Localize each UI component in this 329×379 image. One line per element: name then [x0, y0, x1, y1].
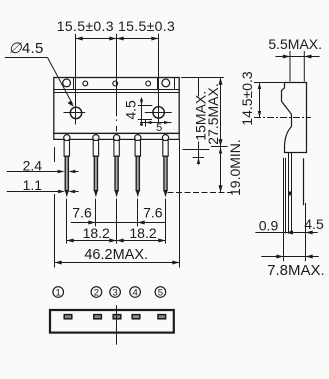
pin 2 root rivet	[93, 135, 99, 141]
side view hole center line	[254, 117, 311, 119]
19.0MIN dimension line	[219, 147, 223, 193]
front view bottom seating strip	[54, 133, 179, 139]
bottom view outline	[50, 310, 174, 333]
27.5MAX dimension line	[219, 78, 223, 147]
2.4 leader line	[7, 171, 58, 173]
5.5MAX dimension line	[276, 55, 320, 59]
svg-text:5: 5	[156, 122, 162, 134]
φ4.5 leader diagonal	[48, 58, 73, 105]
pin 3 lead	[115, 156, 118, 190]
svg-text:1.1: 1.1	[23, 177, 43, 193]
svg-text:18.2: 18.2	[83, 225, 110, 241]
svg-text:19.0MIN.: 19.0MIN.	[227, 139, 243, 196]
5.5MAX right extension line	[303, 51, 305, 82]
pin 5 root rivet	[162, 135, 168, 141]
dimension text 7.8MAX.	[267, 262, 325, 279]
pin 1 lead	[65, 156, 68, 190]
1.1 leader line	[7, 191, 58, 193]
pin 1 root rivet	[64, 135, 70, 141]
svg-text:7.6: 7.6	[143, 205, 163, 221]
top rail small hole 2	[113, 81, 118, 86]
left hole horizontal center line	[64, 112, 86, 114]
svg-text:18.2: 18.2	[129, 225, 156, 241]
dimension text 18.2 left	[83, 225, 110, 241]
dimension text 7.6 left	[72, 205, 92, 221]
pin 3 root rivet	[114, 135, 120, 141]
7.6 dimension line	[71, 221, 166, 225]
side lead row B tip	[288, 192, 292, 197]
pin 3 tip	[115, 190, 119, 197]
top rail left cell divider	[73, 78, 75, 90]
bottom view pad 2	[94, 315, 102, 319]
5 dimension line	[140, 121, 172, 124]
dimension text 7.6 right	[143, 205, 163, 221]
svg-text:27.5MAX.: 27.5MAX.	[205, 83, 221, 144]
1.1 arrows	[58, 190, 79, 193]
pin number circle 3	[110, 287, 121, 299]
top rail small hole 3	[146, 81, 151, 86]
left mounting hole (diam 4.5)	[70, 107, 81, 118]
svg-text:3: 3	[112, 287, 117, 298]
φ4.5 leader underline	[5, 57, 48, 59]
18.2 dimension line	[67, 239, 166, 243]
pin 2 lead	[94, 156, 97, 190]
side lead row A face 2	[285, 158, 287, 234]
pin 5 shoulder	[163, 140, 168, 156]
svg-text:4.5: 4.5	[122, 100, 138, 120]
top rail small hole 1	[83, 81, 88, 86]
top edge extension line (right)	[181, 77, 224, 79]
side lead row C	[303, 158, 305, 205]
bottom view pad 5	[158, 315, 166, 319]
pin 5 tip	[164, 190, 168, 197]
dimension text 1.1	[23, 177, 43, 193]
46.2 dimension line	[55, 261, 180, 265]
svg-text:4.5: 4.5	[304, 216, 324, 232]
4.5 dimension line	[140, 98, 143, 126]
svg-text:7.8MAX.: 7.8MAX.	[267, 262, 325, 279]
svg-text:0.9: 0.9	[259, 217, 279, 233]
dimension text 27.5MAX.	[205, 83, 221, 144]
pin 2 tip	[94, 190, 98, 197]
svg-text:4: 4	[132, 287, 137, 298]
dimension text 15.5±0.3 right	[118, 18, 175, 34]
pin 1 extension line	[66, 199, 68, 244]
dimension text 14.5±0.3	[239, 71, 255, 126]
dimension text 15.5±0.3 left	[57, 18, 114, 34]
svg-text:7.6: 7.6	[72, 205, 92, 221]
right hole vertical center line / extension line	[158, 34, 160, 124]
front view heatsink top rail line B	[54, 92, 179, 94]
pin 5 lead	[164, 156, 167, 190]
dimension text 2.4	[23, 157, 43, 173]
14.5 dimension line	[258, 83, 261, 118]
pin number circle 1	[53, 287, 64, 299]
dimension text 5	[156, 122, 162, 134]
top dimension middle tick	[116, 34, 118, 44]
bottom view pad 3	[113, 315, 121, 319]
pin 2 shoulder	[93, 140, 98, 156]
46.2 left extension line	[54, 147, 56, 268]
svg-text:5.5MAX.: 5.5MAX.	[268, 36, 322, 52]
svg-text:15.5±0.3: 15.5±0.3	[118, 18, 175, 34]
svg-text:∅4.5: ∅4.5	[9, 40, 44, 57]
dimension text 46.2MAX.	[84, 247, 148, 263]
pin 5 extension line	[165, 199, 167, 244]
pin 3 shoulder	[114, 140, 119, 156]
pin 4 lead	[136, 156, 139, 190]
pin 3 extension line	[116, 199, 118, 244]
bottom view center line	[116, 305, 118, 344]
hole diameter label φ4.5	[9, 40, 44, 57]
shoulder plane tick right	[211, 146, 228, 148]
top dimension right arrow	[151, 37, 158, 41]
top dimension middle arrows	[109, 37, 123, 41]
dimension text 15MAX.	[192, 91, 208, 141]
pin 4 extension line	[137, 199, 139, 227]
side left extension line	[283, 234, 285, 262]
4.5 upper tick	[138, 105, 153, 107]
top rail right end hole	[162, 79, 170, 87]
side lead row B face 2	[291, 153, 293, 234]
svg-text:5: 5	[158, 287, 163, 298]
svg-text:15.5±0.3: 15.5±0.3	[57, 18, 114, 34]
front view package body outline	[54, 78, 179, 134]
side lead row B face 1	[288, 153, 290, 234]
dimension text 18.2 right	[129, 225, 156, 241]
left hole vertical center line / extension line	[75, 34, 77, 125]
46.2 right extension line	[179, 140, 181, 268]
2.4 arrows	[58, 170, 79, 173]
bottom view pad 4	[132, 315, 140, 319]
5 tick	[145, 119, 147, 126]
4.5 lower tick	[138, 119, 152, 121]
pin 1 tip	[65, 190, 69, 197]
front view heatsink top rail line A	[54, 89, 179, 91]
7.8MAX dimension line	[261, 255, 319, 259]
dimension text 0.9	[259, 217, 279, 233]
pin 2 extension line	[95, 199, 97, 227]
φ4.5 leader arrowhead	[68, 101, 74, 107]
pin number circle 5	[155, 287, 166, 299]
top dimension line	[76, 38, 159, 40]
5.5MAX left extension line	[289, 51, 291, 82]
pin 1 shoulder	[64, 140, 69, 156]
14.5 top tick	[254, 82, 285, 84]
shoulder plane tick left	[183, 149, 210, 151]
side lead row A face 1	[283, 158, 285, 234]
dimension text 5.5MAX.	[268, 36, 322, 52]
top dimension left arrow	[76, 37, 83, 41]
svg-text:46.2MAX.: 46.2MAX.	[84, 247, 148, 263]
package vertical center line	[116, 34, 118, 132]
top rail right cell divider 2	[174, 78, 176, 90]
side view body outline	[282, 83, 307, 153]
svg-text:14.5±0.3: 14.5±0.3	[239, 71, 255, 126]
top rail left end hole	[63, 79, 71, 87]
top rail right cell divider 1	[157, 78, 159, 90]
right mounting hole	[153, 107, 164, 118]
lead tip reference line	[168, 192, 233, 194]
pin 4 root rivet	[135, 135, 141, 141]
bottom view pad 1	[64, 315, 72, 319]
svg-text:1: 1	[56, 287, 61, 298]
svg-text:2.4: 2.4	[23, 157, 43, 173]
side right extension line	[305, 203, 307, 261]
right hole horizontal center line	[145, 112, 172, 114]
dimension text 19.0MIN.	[227, 139, 243, 196]
pin 4 tip	[136, 190, 140, 197]
svg-text:2: 2	[94, 287, 99, 298]
pin number circle 2	[91, 287, 102, 299]
dimension text 4.5 (hole offset)	[122, 100, 138, 120]
pin number circle 4	[130, 287, 141, 299]
pin 4 shoulder	[135, 140, 140, 156]
15MAX tick	[193, 157, 205, 159]
15MAX dimension upper segment	[198, 78, 200, 97]
15MAX dimension lower segment	[197, 142, 200, 165]
dimension text 4.5 (lead offset)	[304, 216, 324, 232]
0.9/4.5 dimension line	[255, 231, 317, 235]
